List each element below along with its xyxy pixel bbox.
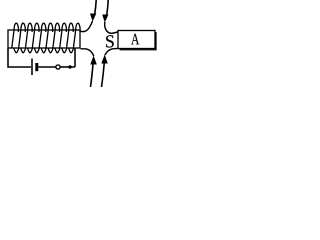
field-line arrow (top right): from top edge curving into gap at box corner — [102, 0, 117, 33]
solenoid L1 core (rectangle) — [8, 30, 80, 48]
field-line arrow (top left): from top edge curving into gap at coil corner — [81, 0, 97, 32]
switch S1 terminal (open circle) — [56, 65, 60, 69]
battery BT1 long plate (+) — [31, 59, 33, 76]
wire: coil left terminal down and right to battery — [8, 48, 31, 67]
label A (inside box) — [131, 34, 139, 45]
battery BT1 short thick plate (-) — [35, 63, 38, 71]
object A box — [118, 31, 155, 49]
wire: battery to switch — [38, 66, 56, 68]
solenoid L1 front turns (slanted lines inside core) — [12, 30, 76, 47]
field-line arrow (bottom right): from bottom edge curving up into gap at box corner — [101, 49, 117, 88]
solenoid L1 bottom loop arcs — [14, 48, 74, 53]
solenoid L1 top loop arcs — [14, 23, 80, 32]
field-line arrow (bottom left): from bottom edge curving up into gap at coil corner — [81, 49, 97, 87]
node label S (south pole of object A) — [106, 35, 114, 47]
wire: right riser up to coil right terminal — [74, 48, 76, 67]
object A box shadow (thicker bottom/right edge) — [120, 32, 157, 50]
wire: switch to right riser — [60, 66, 75, 68]
junction dot — [68, 65, 71, 68]
